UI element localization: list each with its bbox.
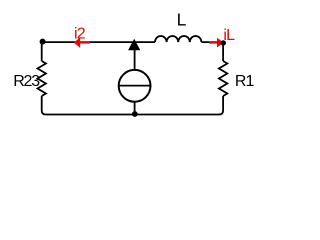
svg-text:i2: i2: [74, 26, 86, 43]
current source top lead: [134, 50, 136, 71]
svg-text:L: L: [177, 9, 187, 29]
node dot top-left: [40, 39, 46, 45]
svg-text:R23: R23: [13, 73, 40, 90]
node dot top-right: [221, 40, 226, 45]
junction dot bottom node: [132, 111, 138, 117]
current arrow i2 tail: [80, 42, 91, 44]
resistor R1: [219, 61, 227, 96]
resistor R23: [38, 61, 46, 96]
current source CS1 circle: [119, 70, 151, 102]
current arrow iL tail: [209, 42, 217, 44]
wire: bottom rail with rounded corners and side leads: [42, 96, 223, 115]
current source bottom lead: [134, 102, 136, 115]
current source arrowhead up: [128, 39, 140, 50]
current arrow iL head (points right): [217, 38, 224, 48]
current source chord line: [119, 85, 151, 87]
wire: top horizontal left section: [42, 41, 155, 43]
wire: left vertical lead from top-left corner to R23: [41, 42, 43, 61]
wire: right vertical lead from top-right corner to R1: [222, 42, 224, 61]
wire: top horizontal right section: [201, 41, 223, 43]
inductor L: [155, 36, 201, 42]
svg-text:R1: R1: [235, 73, 255, 90]
current arrow i2 head (points left): [74, 37, 80, 48]
